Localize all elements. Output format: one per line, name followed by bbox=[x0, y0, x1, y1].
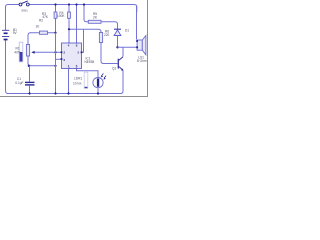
svg-text:8 Ohm: 8 Ohm bbox=[137, 59, 147, 63]
wire R5 feed from rail bbox=[84, 5, 90, 22]
resistor R6 220 bbox=[99, 30, 109, 43]
pin 2 bbox=[61, 51, 66, 55]
svg-text:47K: 47K bbox=[42, 15, 49, 19]
svg-text:100K: 100K bbox=[57, 14, 65, 18]
svg-text:220: 220 bbox=[104, 33, 110, 37]
wire pin8 riser bbox=[76, 5, 78, 44]
LDR light level indicator bbox=[84, 72, 88, 88]
frame bottom border bbox=[0, 96, 148, 98]
preset R1 body bbox=[14, 44, 30, 66]
node top rail R4 bbox=[68, 3, 70, 5]
wire pin5 to LDR bbox=[77, 69, 99, 78]
node R2/R3 junction bbox=[54, 32, 56, 34]
wire R6 to Q1 base bbox=[101, 43, 118, 64]
frame right border bbox=[147, 0, 149, 97]
node top rail R3 bbox=[54, 3, 56, 5]
node LDR ground bbox=[97, 92, 99, 94]
speaker LS1 bbox=[136, 36, 147, 63]
pin 3 bbox=[77, 50, 82, 54]
wire chain x55.5 bbox=[55, 33, 57, 94]
node top rail R5 bbox=[83, 3, 85, 5]
wire pin1 to ground bbox=[68, 69, 70, 94]
svg-text:SW1: SW1 bbox=[21, 8, 28, 12]
svg-text:40%: 40% bbox=[14, 51, 21, 55]
wire top rail bbox=[6, 5, 137, 13]
pin 4 bbox=[68, 43, 70, 48]
svg-text:NE555: NE555 bbox=[85, 60, 95, 64]
wire left rail bbox=[6, 10, 9, 94]
resistor R5 2K bbox=[88, 12, 101, 23]
pin 1 bbox=[68, 64, 70, 68]
pin 8 bbox=[76, 43, 78, 48]
node chain ground bbox=[54, 92, 56, 94]
node R4/pin4 bbox=[68, 28, 70, 30]
pin 5 bbox=[76, 64, 78, 68]
svg-text:Q1: Q1 bbox=[112, 66, 116, 70]
resistor R4 100K bbox=[57, 5, 70, 44]
node wiper/pin2 chain bbox=[54, 51, 56, 53]
wire bottom rail bbox=[7, 93, 122, 95]
node pin1 ground bbox=[67, 92, 69, 94]
svg-text:C1: C1 bbox=[17, 77, 21, 81]
svg-text:0.1µF: 0.1µF bbox=[15, 81, 23, 85]
node chain y66 bbox=[54, 65, 56, 67]
node C1 tap bbox=[28, 65, 30, 67]
resistor R2 1K bbox=[30, 19, 56, 35]
svg-text:10 lux: 10 lux bbox=[73, 81, 82, 85]
svg-text:R2: R2 bbox=[39, 19, 43, 23]
wire preset bottom net y66 bbox=[30, 65, 56, 67]
transistor Q1 bbox=[112, 47, 124, 93]
pin 6 bbox=[61, 58, 66, 62]
preset R1 indicator bar bbox=[19, 42, 23, 62]
capacitor C1 0.1uF bbox=[15, 66, 34, 94]
node top rail pin8 bbox=[75, 3, 77, 5]
diode D1 bbox=[114, 29, 129, 48]
preset R1 wiper arrow bbox=[31, 51, 61, 54]
svg-text:D1: D1 bbox=[125, 29, 129, 33]
switch SW1 bbox=[19, 1, 29, 12]
wire right drop to speaker bbox=[136, 6, 138, 40]
wire R5 to diode bbox=[101, 22, 118, 29]
battery B1 9V bbox=[2, 28, 18, 40]
resistor R3 47K bbox=[42, 5, 57, 33]
svg-text:R1: R1 bbox=[15, 47, 19, 51]
IC IC1 NE555 body bbox=[62, 43, 95, 69]
wire pin6 stub bbox=[56, 58, 62, 60]
node D1/collector bbox=[116, 46, 118, 48]
wire to speaker bbox=[118, 46, 138, 48]
LDR1 bbox=[73, 73, 106, 87]
wire LDR to ground bbox=[97, 88, 99, 94]
svg-text:LDR1: LDR1 bbox=[74, 77, 82, 81]
node C1 ground bbox=[28, 92, 30, 94]
wire pin3 riser bbox=[82, 29, 84, 52]
wire R2 down to preset R1 bbox=[28, 33, 31, 44]
wire reset net y29 bbox=[69, 29, 101, 32]
